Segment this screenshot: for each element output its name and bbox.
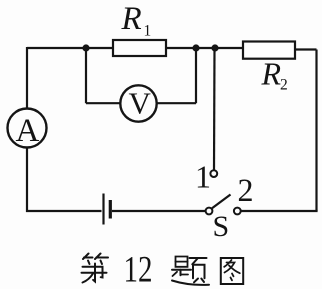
svg-text:R: R	[261, 56, 282, 92]
svg-text:2: 2	[238, 173, 254, 209]
svg-text:12: 12	[124, 250, 153, 289]
svg-text:V: V	[129, 86, 152, 121]
svg-text:S: S	[213, 210, 230, 243]
svg-text:1: 1	[144, 23, 152, 40]
svg-text:1: 1	[195, 159, 211, 195]
svg-text:A: A	[16, 113, 40, 149]
svg-text:2: 2	[280, 77, 288, 94]
svg-text:R: R	[121, 1, 142, 37]
